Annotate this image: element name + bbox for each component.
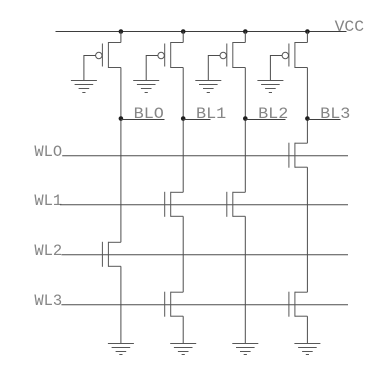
wire P1 gate to ground <box>84 56 96 81</box>
wire VCC rail <box>56 31 347 33</box>
wire P4 gate to ground <box>270 56 282 81</box>
junction VCC-P3 source (pull-up of BL2) <box>243 29 248 34</box>
wire VCC to P3 source <box>244 32 246 43</box>
wire word line WL2 <box>61 254 348 256</box>
ground BL2 <box>232 344 258 355</box>
junction BL3 label tap <box>305 116 310 121</box>
junction VCC-P4 source (pull-up of BL3) <box>305 29 310 34</box>
nmos ROM cell M03 at WL0/BL3 <box>289 143 308 168</box>
junction VCC-P2 source (pull-up of BL1) <box>181 29 186 34</box>
wire bit line BL2 segment y67-192 <box>244 68 246 193</box>
pmos pull-up P3 <box>220 42 245 68</box>
svg-text:BL3: BL3 <box>320 105 350 123</box>
junction BL1 label tap <box>181 116 186 121</box>
ground (P2 gate) <box>133 81 159 93</box>
wire bit line BL2 segment y216-343 <box>244 216 246 343</box>
svg-text:WL1: WL1 <box>34 192 62 210</box>
nmos ROM cell M33 at WL3/BL3 <box>289 292 308 317</box>
svg-text:VCC: VCC <box>335 18 365 36</box>
svg-text:WLO: WLO <box>34 143 62 161</box>
wire VCC to P4 source <box>306 32 308 43</box>
wire VCC to P1 source <box>120 32 122 43</box>
net label BL2 <box>245 105 288 123</box>
junction VCC-P1 source (pull-up of BL0) <box>119 29 124 34</box>
nmos ROM cell M12 at WL1/BL2 <box>227 192 246 217</box>
nmos ROM cell M31 at WL3/BL1 <box>165 292 184 317</box>
wire bit line BL1 segment y216-292 <box>182 216 184 292</box>
wire bit line BL1 segment y316-343 <box>182 316 184 343</box>
wire bit line BL3 segment y67-143 <box>306 68 308 144</box>
ground BL0 <box>108 344 134 355</box>
wire bit line BL3 segment y316-343 <box>306 316 308 343</box>
wire P3 gate to ground <box>208 56 220 81</box>
pmos pull-up P4 <box>282 42 307 68</box>
nmos ROM cell M20 at WL2/BL0 <box>102 242 121 267</box>
ground BL3 <box>294 344 320 355</box>
wire VCC to P2 source <box>182 32 184 43</box>
wire bit line BL3 segment y167-292 <box>306 167 308 292</box>
wire word line WL3 <box>61 304 348 306</box>
ground (P3 gate) <box>195 81 221 93</box>
svg-text:BL2: BL2 <box>258 105 288 123</box>
net label BL1 <box>183 105 226 123</box>
junction BL2 label tap <box>243 116 248 121</box>
pmos pull-up P1 <box>96 42 121 68</box>
svg-text:WL2: WL2 <box>34 242 62 260</box>
svg-text:BLO: BLO <box>134 105 164 123</box>
nmos ROM cell M11 at WL1/BL1 <box>165 192 184 217</box>
svg-text:BL1: BL1 <box>196 105 226 123</box>
ground BL1 <box>170 344 196 355</box>
pmos pull-up P2 <box>158 42 183 68</box>
ground (P1 gate) <box>71 81 97 93</box>
wire bit line BL0 segment y266-343 <box>120 266 122 343</box>
wire word line WL1 <box>60 204 348 206</box>
net label BL0 <box>121 105 165 123</box>
svg-text:WL3: WL3 <box>34 292 62 310</box>
wire P2 gate to ground <box>146 56 158 81</box>
wire word line WL0 <box>62 155 348 157</box>
junction BL0 label tap <box>119 116 124 121</box>
wire bit line BL1 segment y67-192 <box>182 68 184 193</box>
net label BL3 <box>307 105 350 123</box>
wire bit line BL0 segment y67-242 <box>120 68 122 243</box>
ground (P4 gate) <box>257 81 283 93</box>
